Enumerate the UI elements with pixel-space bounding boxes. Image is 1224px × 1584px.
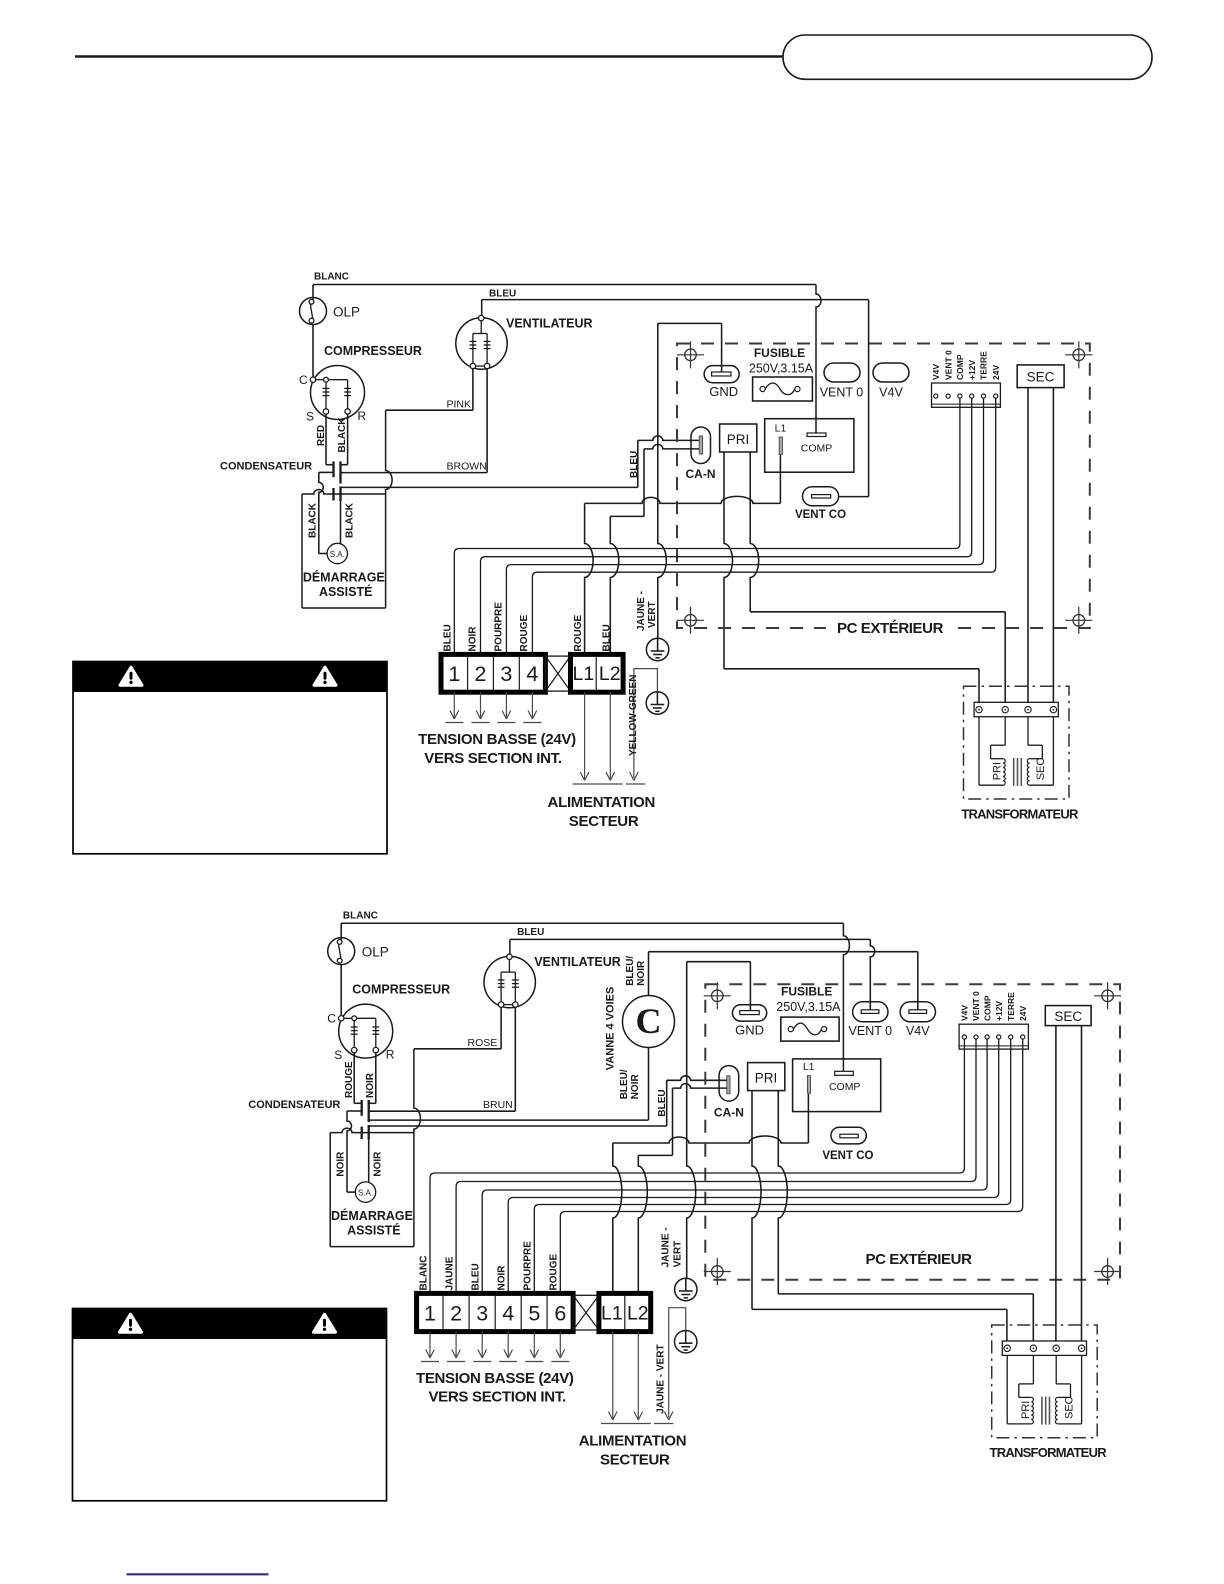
svg-text:BLEU: BLEU xyxy=(517,927,544,938)
svg-text:3: 3 xyxy=(500,662,512,686)
svg-text:VENTILATEUR: VENTILATEUR xyxy=(506,317,593,331)
svg-text:SEC: SEC xyxy=(1027,370,1055,385)
svg-text:PINK: PINK xyxy=(447,399,472,411)
svg-text:SECTEUR: SECTEUR xyxy=(600,1452,670,1469)
svg-text:ALIMENTATION: ALIMENTATION xyxy=(548,794,656,811)
svg-text:VENT CO: VENT CO xyxy=(795,509,846,521)
svg-text:V4V: V4V xyxy=(906,1024,930,1038)
svg-text:VERT: VERT xyxy=(647,601,658,628)
svg-text:L1: L1 xyxy=(775,423,787,435)
svg-text:NOIR: NOIR xyxy=(630,1074,641,1100)
svg-text:PRI: PRI xyxy=(992,762,1004,780)
svg-text:BLACK: BLACK xyxy=(308,502,319,538)
svg-text:SECTEUR: SECTEUR xyxy=(569,813,639,830)
svg-text:2: 2 xyxy=(475,662,487,686)
svg-text:BLEU: BLEU xyxy=(657,1089,668,1116)
svg-text:S: S xyxy=(334,1048,342,1062)
svg-text:NOIR: NOIR xyxy=(468,626,479,652)
svg-text:TENSION BASSE (24V): TENSION BASSE (24V) xyxy=(416,1370,574,1387)
svg-text:C: C xyxy=(327,1012,336,1026)
svg-text:FUSIBLE: FUSIBLE xyxy=(781,985,832,999)
svg-text:ALIMENTATION: ALIMENTATION xyxy=(579,1433,687,1450)
svg-text:POURPRE: POURPRE xyxy=(522,1241,533,1291)
svg-text:BLANC: BLANC xyxy=(314,272,349,283)
svg-text:VERT: VERT xyxy=(673,1241,684,1268)
svg-text:BLEU: BLEU xyxy=(601,624,612,651)
svg-text:DÉMARRAGE: DÉMARRAGE xyxy=(331,1208,413,1223)
svg-text:S.A.: S.A. xyxy=(330,550,345,559)
svg-text:L1: L1 xyxy=(601,1302,623,1324)
svg-text:V4V: V4V xyxy=(879,386,903,400)
svg-text:SEC: SEC xyxy=(1054,1009,1082,1024)
svg-text:4: 4 xyxy=(526,662,538,686)
svg-text:JAUNE -: JAUNE - xyxy=(661,1227,672,1267)
svg-text:S.A.: S.A. xyxy=(358,1189,373,1198)
svg-text:4: 4 xyxy=(502,1301,514,1325)
svg-text:BLACK: BLACK xyxy=(345,502,356,538)
svg-text:250V,3.15A: 250V,3.15A xyxy=(749,362,814,376)
svg-text:NOIR: NOIR xyxy=(336,1151,347,1177)
svg-text:R: R xyxy=(386,1048,395,1062)
svg-text:1: 1 xyxy=(424,1301,436,1325)
svg-text:ROSE: ROSE xyxy=(468,1037,498,1049)
svg-text:VERS SECTION INT.: VERS SECTION INT. xyxy=(428,1389,566,1406)
svg-text:L2: L2 xyxy=(627,1302,649,1324)
svg-text:BLEU/: BLEU/ xyxy=(619,1069,630,1099)
svg-text:V4V: V4V xyxy=(931,364,941,380)
svg-text:BLEU: BLEU xyxy=(629,451,640,478)
svg-text:COMPRESSEUR: COMPRESSEUR xyxy=(352,983,450,997)
svg-text:POURPRE: POURPRE xyxy=(494,602,505,652)
svg-text:VENT CO: VENT CO xyxy=(822,1150,873,1162)
svg-text:ROUGE: ROUGE xyxy=(548,1254,559,1291)
svg-text:1: 1 xyxy=(448,662,460,686)
svg-text:PRI: PRI xyxy=(727,432,750,447)
svg-text:GND: GND xyxy=(735,1023,764,1038)
svg-text:VANNE 4 VOIES: VANNE 4 VOIES xyxy=(604,987,616,1071)
svg-text:PC EXTÉRIEUR: PC EXTÉRIEUR xyxy=(865,1251,972,1268)
svg-text:BLACK: BLACK xyxy=(337,417,348,453)
svg-text:ROUGE: ROUGE xyxy=(573,615,584,652)
svg-text:GND: GND xyxy=(709,384,738,399)
svg-text:COMP: COMP xyxy=(955,354,965,380)
svg-text:ROUGE: ROUGE xyxy=(344,1061,355,1098)
svg-text:CONDENSATEUR: CONDENSATEUR xyxy=(248,1099,340,1111)
svg-text:250V,3.15A: 250V,3.15A xyxy=(776,1000,841,1014)
svg-text:COMP: COMP xyxy=(982,995,992,1021)
svg-text:2: 2 xyxy=(450,1301,462,1325)
svg-text:C: C xyxy=(636,1001,662,1041)
svg-text:3: 3 xyxy=(476,1301,488,1325)
svg-text:COMP: COMP xyxy=(801,443,833,455)
svg-text:BLEU: BLEU xyxy=(489,289,516,300)
svg-text:TERRE: TERRE xyxy=(979,351,989,380)
svg-text:DÉMARRAGE: DÉMARRAGE xyxy=(303,570,385,585)
svg-text:JAUNE: JAUNE xyxy=(444,1256,455,1290)
svg-text:R: R xyxy=(358,409,367,423)
svg-text:ASSISTÉ: ASSISTÉ xyxy=(319,584,373,599)
svg-text:COMP: COMP xyxy=(829,1081,861,1093)
svg-text:VENTILATEUR: VENTILATEUR xyxy=(534,955,621,969)
svg-text:ASSISTÉ: ASSISTÉ xyxy=(347,1223,401,1238)
svg-text:RED: RED xyxy=(316,425,327,446)
svg-text:BROWN: BROWN xyxy=(447,461,487,473)
svg-text:JAUNE - VERT: JAUNE - VERT xyxy=(656,1344,667,1413)
svg-text:VERS SECTION INT.: VERS SECTION INT. xyxy=(424,750,562,767)
svg-text:L1: L1 xyxy=(803,1061,815,1073)
svg-text:+12V: +12V xyxy=(994,1001,1004,1021)
svg-text:V4V: V4V xyxy=(960,1005,970,1021)
svg-text:SEC: SEC xyxy=(1063,1396,1075,1419)
svg-text:TENSION BASSE (24V): TENSION BASSE (24V) xyxy=(418,731,576,748)
svg-text:5: 5 xyxy=(528,1301,540,1325)
svg-text:NOIR: NOIR xyxy=(496,1265,507,1291)
svg-text:S: S xyxy=(306,410,314,424)
svg-text:NOIR: NOIR xyxy=(636,960,647,986)
svg-text:BRUN: BRUN xyxy=(483,1099,513,1111)
svg-text:OLP: OLP xyxy=(333,305,360,320)
svg-text:CONDENSATEUR: CONDENSATEUR xyxy=(220,461,312,473)
svg-text:PC EXTÉRIEUR: PC EXTÉRIEUR xyxy=(837,620,944,637)
svg-text:TRANSFORMATEUR: TRANSFORMATEUR xyxy=(961,806,1079,821)
svg-text:L2: L2 xyxy=(599,663,621,685)
svg-text:SEC: SEC xyxy=(1035,758,1047,781)
svg-text:VENT 0: VENT 0 xyxy=(820,386,864,400)
svg-text:VENT 0: VENT 0 xyxy=(849,1024,893,1038)
svg-text:6: 6 xyxy=(554,1301,566,1325)
svg-text:TERRE: TERRE xyxy=(1006,992,1016,1021)
svg-text:BLEU: BLEU xyxy=(442,624,453,651)
svg-text:OLP: OLP xyxy=(362,945,389,960)
svg-text:TRANSFORMATEUR: TRANSFORMATEUR xyxy=(990,1445,1108,1460)
svg-text:VENT 0: VENT 0 xyxy=(971,991,981,1021)
svg-text:BLEU: BLEU xyxy=(470,1263,481,1290)
svg-text:NOIR: NOIR xyxy=(373,1151,384,1177)
svg-text:JAUNE -: JAUNE - xyxy=(636,591,647,631)
svg-text:YELLOW-GREEN: YELLOW-GREEN xyxy=(628,675,639,756)
svg-text:C: C xyxy=(299,373,308,387)
svg-text:FUSIBLE: FUSIBLE xyxy=(754,346,805,360)
svg-text:24V: 24V xyxy=(991,365,1001,380)
svg-text:24V: 24V xyxy=(1018,1006,1028,1021)
svg-text:PRI: PRI xyxy=(1020,1401,1032,1419)
svg-text:CA-N: CA-N xyxy=(686,467,716,481)
svg-text:BLEU/: BLEU/ xyxy=(625,956,636,986)
svg-text:CA-N: CA-N xyxy=(714,1106,744,1120)
svg-text:VENT 0: VENT 0 xyxy=(943,350,953,380)
svg-text:L1: L1 xyxy=(573,663,595,685)
svg-text:ROUGE: ROUGE xyxy=(519,615,530,652)
svg-text:+12V: +12V xyxy=(967,360,977,380)
svg-text:BLANC: BLANC xyxy=(343,911,378,922)
svg-text:COMPRESSEUR: COMPRESSEUR xyxy=(324,344,422,358)
svg-text:NOIR: NOIR xyxy=(365,1072,376,1098)
svg-text:PRI: PRI xyxy=(755,1071,778,1086)
svg-text:BLANC: BLANC xyxy=(418,1256,429,1291)
